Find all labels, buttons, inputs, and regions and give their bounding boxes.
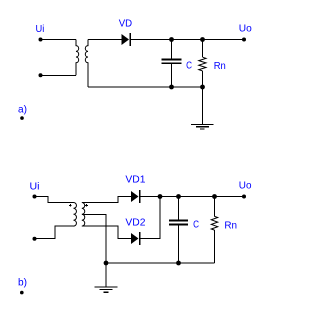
svg-text:Rn: Rn <box>224 220 237 231</box>
transformer T secondary winding (a) <box>85 40 88 88</box>
wire VD1 cathode to output node Uo (b) <box>140 196 244 198</box>
svg-text:C: C <box>186 61 192 72</box>
transformer T2 primary winding (b) <box>74 203 77 227</box>
wire Ui+ to transformer primary top (a) <box>41 39 77 41</box>
node Ui- terminal (a) <box>39 73 43 77</box>
wire transformer primary bottom to Ui- (a) <box>41 74 77 76</box>
capacitor C (b) <box>169 197 188 264</box>
svg-text:Uo: Uo <box>239 24 253 35</box>
wire VD cathode to output node Uo (a) <box>130 39 244 41</box>
svg-text:Ui: Ui <box>36 24 45 35</box>
junction C top (b) <box>176 194 181 199</box>
svg-text:VD1: VD1 <box>125 175 145 186</box>
wire Ui+ to transformer primary top (b) <box>35 197 74 203</box>
transformer T primary winding (a) <box>76 40 79 76</box>
wire transformer primary bottom to Ui- (b) <box>35 226 74 239</box>
wire secondary center tap to ground (b) <box>82 214 106 263</box>
junction ground node (b) <box>104 261 109 266</box>
wire bottom rail ground to Rn (b) <box>106 262 215 264</box>
ground (b) <box>95 263 118 292</box>
wire bottom rail secondary to Rn (a) <box>88 86 203 88</box>
junction Rn top (a) <box>200 37 205 42</box>
junction Rn top (b) <box>212 194 217 199</box>
transformer T2 secondary winding (b) <box>82 203 85 227</box>
bullet dot below b) <box>20 291 24 295</box>
wire VD2 cathode riser to output node (b) <box>140 197 160 239</box>
svg-text:Ui: Ui <box>30 181 40 192</box>
junction C top (a) <box>169 37 174 42</box>
svg-text:b): b) <box>18 278 27 289</box>
diode VD (a) <box>122 33 131 46</box>
node Uo terminal (b) <box>242 195 246 199</box>
diode VD2 (b) <box>131 232 140 245</box>
svg-text:VD2: VD2 <box>125 218 145 229</box>
resistor Rn (a) <box>199 40 206 88</box>
capacitor C (a) <box>162 40 182 88</box>
svg-text:VD: VD <box>119 18 132 29</box>
node Ui+ terminal (b) <box>33 195 37 199</box>
junction C bottom (b) <box>176 261 181 266</box>
junction Rn bottom ground node (a) <box>200 85 205 90</box>
diode VD1 (b) <box>131 190 140 203</box>
resistor Rn (b) <box>211 197 217 264</box>
svg-text:C: C <box>193 220 199 231</box>
wire secondary top to diode VD anode (a) <box>88 39 122 41</box>
svg-text:Uo: Uo <box>239 180 252 191</box>
node Uo terminal (a) <box>242 38 246 42</box>
junction VD2 output (b) <box>158 194 163 199</box>
wire secondary top to diode VD1 anode (b) <box>82 197 131 203</box>
node Ui- terminal (b) <box>33 237 37 241</box>
bullet dot below a) <box>20 116 24 120</box>
junction C bottom (a) <box>169 85 174 90</box>
svg-text:Rn: Rn <box>214 61 226 72</box>
polarity mark + secondary (b) <box>85 204 88 207</box>
ground (a) <box>191 87 214 129</box>
svg-text:a): a) <box>18 104 27 115</box>
node Ui+ terminal (a) <box>39 38 43 42</box>
wire secondary bottom to diode VD2 anode (b) <box>82 226 131 238</box>
polarity mark + primary (b) <box>69 204 72 207</box>
